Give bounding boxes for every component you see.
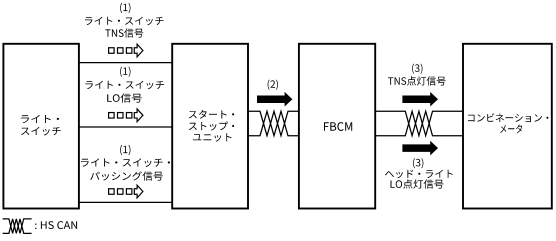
label (3) lower (413, 158, 423, 168)
label (2) (268, 80, 278, 90)
label (1) middle (120, 67, 130, 77)
label light switch passing (81, 158, 170, 167)
wire light switch TNS signal (79, 62, 172, 64)
text light switch line2 (21, 127, 61, 136)
label head light (385, 170, 453, 179)
dashed open arrow LO signal direction (109, 109, 143, 122)
arrow (3) TNS lighting signal direction (402, 92, 438, 107)
block combination meter (463, 44, 552, 209)
legend text HS CAN (35, 221, 77, 229)
text light switch line1 (21, 115, 59, 123)
text combination meter line1 (468, 113, 549, 122)
label TNS lighting signal (388, 76, 446, 85)
label LO lighting signal (391, 179, 444, 188)
twisted pair HS CAN legend symbol (3, 219, 32, 234)
label LO signal (107, 93, 142, 102)
label light switch (top) (85, 17, 164, 26)
label (1) bottom (120, 145, 130, 155)
label (1) top (120, 3, 130, 13)
text combination meter line2 (500, 124, 522, 133)
wire light switch LO signal (79, 126, 172, 128)
dashed open arrow TNS signal direction (109, 44, 143, 57)
label TNS signal (105, 28, 143, 37)
text start stop unit line1 (189, 110, 234, 119)
label passing signal (90, 171, 163, 180)
block start stop unit (172, 44, 248, 209)
label (3) upper (412, 64, 422, 74)
block light switch (3, 44, 79, 209)
text start stop unit line2 (189, 122, 234, 131)
text start stop unit line3 (193, 133, 232, 141)
arrow (2) CAN signal direction (257, 92, 292, 107)
twisted pair HS CAN bus (FBCM to combination meter) (375, 111, 463, 135)
dashed open arrow passing signal direction (109, 185, 143, 198)
block FBCM (299, 44, 375, 209)
label light switch (middle) (86, 81, 165, 90)
twisted pair HS CAN bus (start-stop unit to FBCM) (248, 111, 299, 135)
arrow (3) head light LO lighting signal direction (402, 141, 438, 156)
text FBCM (324, 122, 352, 131)
wire light switch passing signal (79, 201, 172, 203)
